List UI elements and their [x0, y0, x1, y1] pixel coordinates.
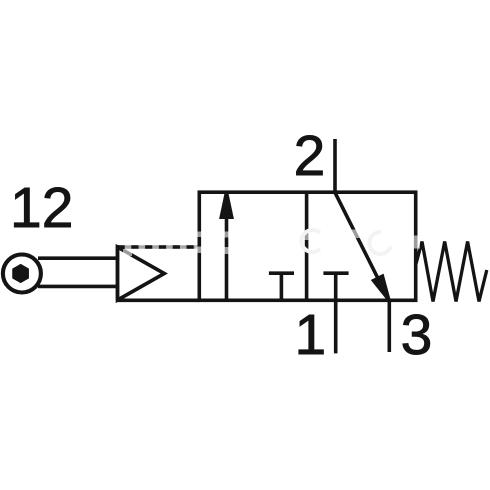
- valve body outline: [199, 192, 415, 300]
- left box flow arrowhead (filled): [221, 193, 231, 218]
- right box blocked port T stem + port 1 line: [334, 273, 338, 353]
- watermark faint letter ghosts: [301, 230, 391, 254]
- pilot box top dashed line: [118, 245, 200, 249]
- plunger rod bottom line: [38, 285, 118, 289]
- svg-text:2: 2: [294, 124, 326, 188]
- port 2 line: [333, 139, 337, 192]
- left box flow arrow shaft: [225, 215, 229, 300]
- svg-text:1: 1: [295, 303, 327, 367]
- plunger rod top line: [38, 256, 118, 260]
- right box diagonal arrowhead (filled): [374, 276, 389, 299]
- bottom edge extension under pilot box: [118, 298, 200, 302]
- svg-text:3: 3: [401, 303, 433, 367]
- return spring: [416, 242, 487, 302]
- valve middle divider: [305, 192, 309, 300]
- left box blocked port T stem: [280, 273, 284, 300]
- watermark notches (light overlay band): [123, 230, 420, 257]
- svg-text:12: 12: [10, 176, 73, 240]
- roller hex nut (filled): [13, 265, 28, 283]
- right box diagonal flow shaft: [335, 192, 380, 282]
- right box blocked port T bar: [323, 271, 348, 275]
- pilot box left edge: [116, 245, 120, 300]
- roller circle actuator: [3, 255, 41, 293]
- port 3 line: [387, 300, 391, 352]
- pilot box top dashed line (grey underlay): [119, 245, 199, 249]
- pilot triangle: [118, 247, 165, 300]
- left box blocked port T bar: [269, 271, 294, 275]
